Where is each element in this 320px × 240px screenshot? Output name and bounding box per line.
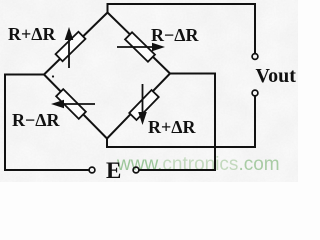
arrow of top-left gauge (pointing up) xyxy=(65,27,74,68)
wire: arm top-left (node A to node B) xyxy=(44,13,108,75)
junction dot near node B xyxy=(52,75,54,77)
terminal Vout- xyxy=(252,90,258,96)
wire: node B left and down to E+ terminal xyxy=(5,75,89,171)
svg-text:E: E xyxy=(106,158,121,182)
strain-gauge resistor R-dR (bottom-left) xyxy=(56,89,86,119)
wire: node A up and right to Vout+ terminal xyxy=(108,4,256,53)
svg-text:R+ΔR: R+ΔR xyxy=(148,117,197,137)
wire: bottom rail (node D to Vout- branch) xyxy=(106,146,256,148)
svg-text:Vout: Vout xyxy=(256,65,297,87)
arrow of top-right gauge (pointing right) xyxy=(117,43,165,52)
strain-gauge resistor R+dR (top-left) xyxy=(56,32,86,62)
wire: arm top-right (node A to node C) xyxy=(108,13,171,74)
wire: node C right and down to E- wire xyxy=(170,74,215,171)
wire: arm bottom-left (node B to node D) xyxy=(44,75,107,139)
wire: arm bottom-right (node D to node C) xyxy=(107,74,170,139)
arrow of bottom-left gauge (pointing left) xyxy=(51,100,95,109)
terminal E+ xyxy=(89,167,95,173)
wire: Vout- terminal down to bottom rail xyxy=(254,97,256,148)
svg-text:R−ΔR: R−ΔR xyxy=(151,25,200,45)
svg-text:R+ΔR: R+ΔR xyxy=(8,24,57,44)
strain-gauge resistor R-dR (top-right) xyxy=(125,32,155,62)
svg-text:R−ΔR: R−ΔR xyxy=(12,110,61,130)
svg-text:www.cntronics.com: www.cntronics.com xyxy=(116,154,280,175)
terminal Vout+ xyxy=(252,54,258,60)
wire: E- terminal to right rail xyxy=(139,169,216,171)
strain-gauge resistor R+dR (bottom-right) xyxy=(129,90,158,120)
arrow of bottom-right gauge (pointing down) xyxy=(138,84,147,125)
wire: node D stub down xyxy=(106,138,108,147)
terminal E- xyxy=(133,167,139,173)
